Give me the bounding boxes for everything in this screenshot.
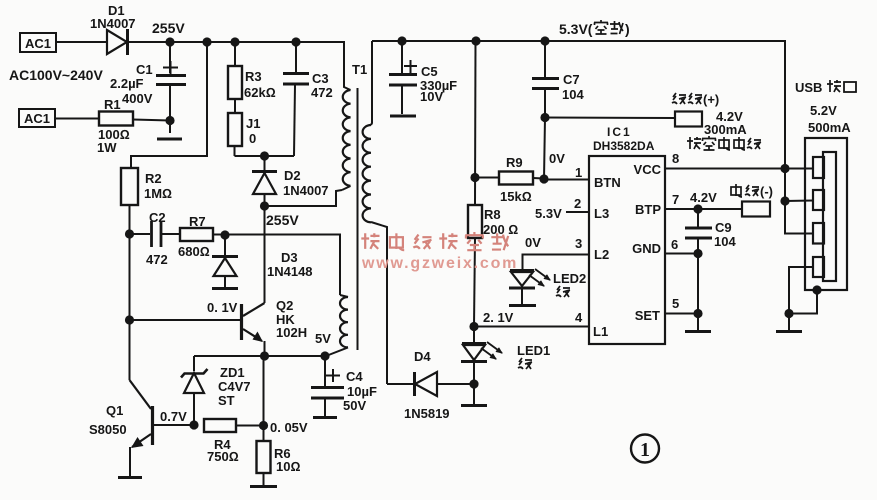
wire Q2 base from left column [130,319,241,321]
svg-text:4: 4 [575,310,583,325]
wire shell to ground node [789,290,817,314]
wire primary bottom to D2 node [265,190,343,206]
svg-text:1MΩ: 1MΩ [144,186,172,201]
svg-text:T1: T1 [352,62,367,77]
svg-text:1N4007: 1N4007 [283,183,329,198]
svg-text:7: 7 [672,192,679,207]
junction dot R4/R6 [259,421,268,430]
label: connect charging battery [687,136,761,150]
junction dot BTP/C9 [693,204,702,213]
wire Q1 base to R4 node [154,424,194,426]
svg-text:Q1: Q1 [106,403,123,418]
svg-text:2. 1V: 2. 1V [483,310,514,325]
svg-text:(+): (+) [703,92,719,107]
wire Q2 emitter down to 5V node [264,341,266,356]
wire 255V top rail [127,41,344,43]
junction dot pin1 node [539,174,548,183]
jumper J1 0 [228,99,260,156]
junction dots on top rail [165,37,174,46]
resistor R6 10R [257,425,301,485]
junction dot L1 node [469,322,478,331]
svg-text:D2: D2 [284,168,301,183]
junction dot D2 top [260,151,269,160]
svg-text:AC1: AC1 [24,111,50,126]
ground T-bar LED1 [461,384,487,406]
svg-text:L2: L2 [594,247,609,262]
svg-text:BTP: BTP [635,202,661,217]
svg-text:0. 05V: 0. 05V [270,420,308,435]
terminal AC1 (top, live input) [20,33,56,52]
wire R4 to R6 node [236,425,263,427]
wire R1 to C1 node [133,120,170,121]
junction dot Q2 emitter node [260,351,269,360]
wire 5V node line (ZD1 top to C4) [194,355,325,357]
node label 5.3V (no-load) [559,20,630,37]
label USB port [795,80,856,95]
USB connector outer shell [805,138,847,290]
svg-text:104: 104 [714,234,736,249]
wire AC1 to D1 anode [56,41,107,43]
IC1 pin 8 wire (VCC) [664,151,785,169]
USB connector tongue [823,152,836,281]
svg-text:104: 104 [562,87,584,102]
svg-text:C4V7: C4V7 [218,379,251,394]
svg-text:www.gzweix.com: www.gzweix.com [361,255,518,272]
svg-text:C9: C9 [715,220,732,235]
svg-text:0.7V: 0.7V [160,409,187,424]
svg-text:62kΩ: 62kΩ [244,85,276,100]
svg-text:10V: 10V [420,89,443,104]
svg-text:S8050: S8050 [89,422,127,437]
svg-text:472: 472 [311,85,333,100]
capacitor C4 10uF 50V [311,356,377,416]
zener ZD1 C4V7 [181,356,251,425]
capacitor C3 472 [283,42,333,156]
svg-text:USB: USB [795,80,822,95]
svg-text:ZD1: ZD1 [220,365,245,380]
IC1 pin 6 wire (GND) [664,237,698,254]
svg-text:1N4007: 1N4007 [90,16,136,31]
svg-text:1: 1 [575,165,582,180]
capacitor C5 330uF 10V [389,41,457,114]
junction dot rail/USB pin2 [780,196,789,205]
diode D3 1N4148 [212,235,313,287]
svg-text:750Ω: 750Ω [207,449,239,464]
svg-text:BTN: BTN [594,175,621,190]
svg-text:0. 1V: 0. 1V [207,300,238,315]
ground T-bar R6 [250,485,277,488]
wire C7 node down to pin1 node [544,118,545,180]
red wire (+) terminal box [672,92,719,127]
IC1 pin 7 wire (BTP) [664,190,742,209]
junction dot C4 top [320,351,329,360]
diode D4 1N5819 [387,349,474,421]
diode D1 1N4007 [90,3,136,55]
resistor R2 1M [121,168,172,205]
svg-text:SET: SET [635,308,660,323]
svg-text:255V: 255V [266,212,299,228]
white wire (-) terminal box [731,184,773,217]
svg-text:2: 2 [574,196,581,211]
wire D2 node down to Q2 collector [264,206,266,303]
figure number circled 1 [631,435,659,463]
wire USB pin1 [785,168,813,170]
svg-text:1: 1 [640,439,650,461]
svg-text:10Ω: 10Ω [276,459,300,474]
junction dot USB ground node [784,309,793,318]
wire to red wire terminal [545,117,675,120]
IC1 pin 5 wire (SET) [664,296,698,314]
resistor R3 62k [228,42,276,100]
IC1 pin 1 wire (BTN) [544,151,589,180]
svg-text:102H: 102H [276,325,307,340]
junction dot D2 anode / primary bottom [260,201,269,210]
capacitor C9 104 [685,209,736,254]
svg-text:IC1: IC1 [607,125,632,139]
USB pin 4 contact [813,257,824,277]
5.3V output rail [372,41,785,168]
capacitor C7 104 [532,41,584,117]
svg-text:VCC: VCC [634,162,662,177]
svg-text:): ) [625,21,630,37]
svg-text:Q2: Q2 [276,298,293,313]
svg-text:5.3V(: 5.3V( [559,21,593,37]
IC1 pin 3 wire (L2) to LED2 [523,235,590,269]
junction dot R9 left [470,173,479,182]
resistor R8 200R [468,205,518,326]
svg-text:J1: J1 [246,116,260,131]
svg-text:300mA: 300mA [704,122,747,137]
svg-text:D3: D3 [281,250,298,265]
svg-text:500mA: 500mA [808,120,851,135]
svg-text:L3: L3 [594,206,609,221]
junction dot C1/R1 [165,116,174,125]
capacitor C1 2.2uF 400V [110,42,186,133]
junction dot GND/C9 [693,249,702,258]
ground T-bar USB [776,314,802,332]
wire USB pin4 to ground [789,267,813,314]
svg-text:R1: R1 [104,97,121,112]
svg-text:R9: R9 [506,155,523,170]
svg-text:472: 472 [146,252,168,267]
IC1 DH3582DA body [589,125,665,344]
wire rail x207 down-left to R2 [131,42,207,168]
USB pin 3 contact [813,223,824,244]
svg-text:2.2µF: 2.2µF [110,76,144,91]
svg-text:1N5819: 1N5819 [404,406,450,421]
svg-text:5V: 5V [315,331,331,346]
svg-text:AC100V~240V: AC100V~240V [9,67,103,83]
svg-text:C2: C2 [149,210,166,225]
svg-text:0V: 0V [549,151,565,166]
junction dot C7 bottom / red-wire line [540,113,549,122]
ground T-bar SET/GND [685,314,711,332]
watermark line 1 [361,232,508,250]
svg-text:255V: 255V [152,20,185,36]
diode D2 1N4007 [252,156,329,206]
junction dot D4/LED1 [469,379,478,388]
svg-text:15kΩ: 15kΩ [500,189,532,204]
terminal AC1 (bottom, neutral input) [19,109,55,127]
junction dot SET node [693,309,702,318]
junction dot rail/VCC/USB pin1 [780,164,789,173]
svg-text:C5: C5 [421,64,438,79]
resistor R1 100R 1W [97,97,133,155]
T-bar termination of D3 [212,287,238,290]
USB pin 1 contact [813,157,824,178]
svg-text:1N4148: 1N4148 [267,264,313,279]
LED2 green [509,269,586,304]
T-bar termination of C1 [157,138,182,141]
resistor R9 15k [475,155,544,204]
junction dot shell bottom [812,285,821,294]
transistor Q2 HK102H [242,298,308,342]
wire R2 down left column [129,205,131,380]
svg-text:L1: L1 [593,324,608,339]
svg-text:50V: 50V [343,398,366,413]
svg-text:4.2V: 4.2V [690,190,717,205]
svg-text:6: 6 [671,237,678,252]
svg-text:C3: C3 [312,71,329,86]
wire AC1 to R1 [55,118,99,120]
wire R7 to feedback winding [213,235,340,296]
svg-text:C1: C1 [136,62,153,77]
svg-text:680Ω: 680Ω [178,244,210,259]
wire rail down to R9/R8 [474,41,477,205]
svg-text:1W: 1W [97,140,117,155]
T1 feedback winding [326,295,348,356]
svg-text:3: 3 [575,236,582,251]
svg-text:C4: C4 [346,369,363,384]
svg-text:0: 0 [249,131,256,146]
junction dot ZD1/R4/Q1 base [189,420,198,429]
capacitor C2 472 [130,210,181,267]
svg-text:5.3V: 5.3V [535,206,562,221]
T1 core [357,88,359,350]
svg-text:R3: R3 [245,69,262,84]
wire GND node down to SET node [697,254,699,314]
svg-text:LED2: LED2 [553,271,586,286]
wire USB pin2 [785,200,813,203]
svg-text:R2: R2 [145,171,162,186]
IC1 pin 4 wire (L1) [474,310,589,327]
svg-text:LED1: LED1 [517,343,550,358]
svg-text:5.2V: 5.2V [810,103,837,118]
USB pin 2 contact [813,190,824,210]
resistor R7 680R [178,214,213,259]
svg-text:0V: 0V [525,235,541,250]
T1 primary winding [342,41,351,190]
wire 5V node down to R6 node [263,356,265,425]
svg-text:GND: GND [632,241,661,256]
svg-text:200 Ω: 200 Ω [483,222,518,237]
svg-text:5: 5 [672,296,679,311]
svg-text:R7: R7 [189,214,206,229]
T-bar termination C5 [390,115,416,118]
svg-text:C7: C7 [563,72,580,87]
wire J1/C3 bottom to D2 [235,155,295,157]
junction dot left column / Q2 base wire [125,315,134,324]
svg-text:ST: ST [218,393,235,408]
T1 secondary winding [363,41,387,384]
svg-text:D4: D4 [414,349,431,364]
resistor R4 750R [204,419,239,464]
junction dot R7/D3 [220,230,229,239]
svg-text:8: 8 [672,151,679,166]
svg-text:400V: 400V [122,91,153,106]
junction dot R2/C2 [125,229,134,238]
svg-text:R8: R8 [484,207,501,222]
LED1 red [461,326,550,384]
svg-text:(-): (-) [760,184,773,199]
junction dots on output rail [397,36,406,45]
wire rail down to USB pin3 [785,168,813,234]
transistor Q1 S8050 [89,380,153,476]
svg-text:DH3582DA: DH3582DA [593,139,655,153]
svg-text:10µF: 10µF [347,384,377,399]
ground T-bar Q1 emitter [118,476,142,479]
T-bar termination C4 [313,416,337,419]
ground T-bar LED2 [509,304,536,307]
IC1 pin 2 stub (L3) [535,196,589,221]
svg-text:AC1: AC1 [25,36,51,51]
